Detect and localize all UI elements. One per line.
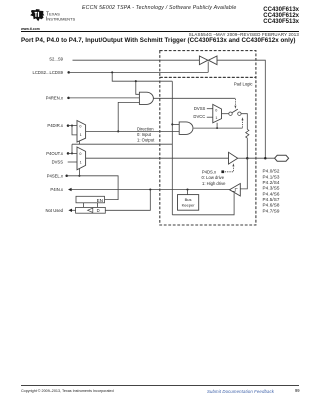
svg-text:1: 1 xyxy=(215,116,217,120)
latch clock triangle xyxy=(88,208,93,212)
wire pad feedback to input buffer xyxy=(240,158,247,189)
mux P4DIR xyxy=(77,121,86,143)
and gate U1 xyxy=(139,92,153,104)
wire LCD-enable vertical xyxy=(171,81,173,215)
svg-text:LCDS2...LCDS9: LCDS2...LCDS9 xyxy=(33,70,64,75)
node P4OUT.x bullet xyxy=(67,152,70,155)
svg-text:Keeper: Keeper xyxy=(182,203,196,208)
label P4OUT.x xyxy=(46,151,64,156)
wire resistor to pad row xyxy=(246,138,248,158)
label Bus Keeper xyxy=(182,197,196,208)
svg-text:1: 1 xyxy=(80,133,82,137)
svg-text:P4DS.x: P4DS.x xyxy=(202,170,217,175)
dashed control to pull-resistor switch xyxy=(234,99,236,109)
label 0: Low drive xyxy=(202,175,225,180)
wire DVSS stub xyxy=(207,108,213,110)
svg-text:DVCC: DVCC xyxy=(193,114,205,119)
pin labels P4.0/S2 - P4.7/S9 xyxy=(263,169,280,214)
schmitt input buffer xyxy=(230,184,241,197)
node P4DIR.x bullet xyxy=(67,124,70,127)
wire P4SEL.x to latch EN xyxy=(67,176,118,200)
svg-text:P4IN.x: P4IN.x xyxy=(50,187,63,192)
label Direction xyxy=(137,127,154,132)
label P4DS.x xyxy=(202,170,217,175)
wire input buffer enable path xyxy=(172,193,234,215)
label 0: Input xyxy=(137,132,152,137)
junction P4OUT branch xyxy=(71,152,73,154)
svg-text:1: 1 xyxy=(80,161,82,165)
junction P4SEL xyxy=(78,175,80,177)
wire driver output xyxy=(238,157,248,159)
wire DIR mux select stub xyxy=(79,141,81,144)
label EN xyxy=(97,198,103,203)
label DVSS xyxy=(52,160,64,165)
wire mux pull select xyxy=(216,123,218,128)
wire P4OUT branch up xyxy=(71,144,73,153)
latch inter-box connectors xyxy=(83,203,97,208)
svg-text:P4SEL.x: P4SEL.x xyxy=(47,173,64,178)
wire gate U2 top input xyxy=(172,123,179,125)
label P4REN.x xyxy=(46,95,64,100)
svg-text:P4.4/S6: P4.4/S6 xyxy=(263,191,280,196)
wire branch into AND gate U1 top input xyxy=(136,81,140,94)
svg-text:P4.3/S5: P4.3/S5 xyxy=(263,186,280,191)
svg-text:P4.6/S8: P4.6/S8 xyxy=(263,203,280,208)
svg-text:0: 0 xyxy=(215,109,217,113)
svg-text:Bus: Bus xyxy=(185,197,192,202)
transmission gate left diode xyxy=(199,56,208,65)
svg-text:1: Output: 1: Output xyxy=(137,138,155,143)
mux P4OUT xyxy=(77,147,86,170)
ESD clamp dashed box xyxy=(160,51,256,78)
mux P4DIR pin labels xyxy=(79,124,81,137)
wire gate U2 output xyxy=(194,127,243,129)
bus keeper box xyxy=(178,195,199,211)
svg-text:Not Used: Not Used xyxy=(46,208,64,213)
switch contact right xyxy=(238,112,241,115)
svg-text:Pad Logic: Pad Logic xyxy=(234,81,253,86)
svg-text:Direction: Direction xyxy=(137,127,154,132)
wire P4REN.x xyxy=(69,97,140,99)
junction LCDS branch xyxy=(111,71,113,73)
svg-text:P4.2/S4: P4.2/S4 xyxy=(263,180,280,185)
output driver buffer xyxy=(229,152,238,164)
wire output row to driver xyxy=(86,157,229,159)
svg-text:DVSS: DVSS xyxy=(52,160,64,165)
arrow Not Used xyxy=(68,209,72,212)
label LCDS2...LCDS9 xyxy=(33,70,64,75)
latch D box xyxy=(76,207,106,213)
switch lever xyxy=(232,109,238,113)
wire P4DIR branch to mux input 1 xyxy=(72,126,77,135)
svg-text:0: 0 xyxy=(79,152,81,156)
svg-text:P4DIR.x: P4DIR.x xyxy=(47,123,63,128)
wire P4OUT.x to mux input 0 xyxy=(68,152,77,154)
junction pad column xyxy=(264,157,267,160)
label 1: Output xyxy=(137,138,155,143)
label Pad Logic xyxy=(234,81,253,86)
wire DVCC stub xyxy=(207,116,213,118)
wire LCDS branch xyxy=(112,72,172,81)
junction gate U2 output / mux select xyxy=(216,127,218,129)
arrow P4IN.x xyxy=(68,188,72,191)
resistor R pull xyxy=(246,129,249,138)
svg-text:0: Low drive: 0: Low drive xyxy=(202,175,225,180)
label P4IN.x xyxy=(50,187,63,192)
node P4REN.x bullet xyxy=(67,97,70,100)
svg-text:P4OUT.x: P4OUT.x xyxy=(46,151,64,156)
and gate U2 xyxy=(179,122,193,134)
svg-text:0: 0 xyxy=(79,124,81,128)
svg-text:DVSS: DVSS xyxy=(194,106,206,111)
wire latch D path xyxy=(105,190,150,211)
Pad Logic dashed box xyxy=(160,77,256,225)
label Not Used xyxy=(46,208,64,213)
TI logo xyxy=(29,9,81,22)
junction LCD enable / gate U2 xyxy=(171,123,173,125)
mux pull pin labels xyxy=(215,109,217,121)
junction P4IN bus keeper xyxy=(186,188,188,190)
label S2...S9 xyxy=(49,57,63,62)
svg-text:S2...S9: S2...S9 xyxy=(49,57,63,62)
wire pad net top xyxy=(217,60,265,158)
pad xyxy=(275,155,289,161)
P4DS dashed control xyxy=(225,163,235,172)
node LCDS bullet xyxy=(67,71,70,74)
node pad net xyxy=(246,157,249,160)
wire Not Used xyxy=(72,209,76,211)
junction direction net / gate U1 xyxy=(117,130,119,132)
wire switch to resistor xyxy=(241,114,247,130)
wire LCDS to transmission gate center xyxy=(69,62,209,73)
wire P4DIR.x to mux input 0 xyxy=(68,125,77,127)
wire S2...S9 to transmission gate xyxy=(73,59,200,61)
label D xyxy=(97,208,100,213)
label DVCC xyxy=(193,114,205,119)
svg-text:EN: EN xyxy=(97,198,103,203)
junction LCDS/gate1 branch xyxy=(135,80,137,82)
svg-text:P4.7/S9: P4.7/S9 xyxy=(263,208,280,213)
wire pad row xyxy=(247,157,274,159)
transmission gate right diode xyxy=(208,56,217,65)
mux P4OUT pin labels xyxy=(79,152,81,165)
wire mux pull output xyxy=(222,113,229,115)
svg-text:1: High drive: 1: High drive xyxy=(202,181,226,186)
switch contact left xyxy=(229,112,232,115)
dashed control to switch contact xyxy=(242,117,244,127)
node P4SEL.x bullet xyxy=(65,175,68,178)
label DVSS pad logic xyxy=(194,106,206,111)
svg-text:P4.1/S3: P4.1/S3 xyxy=(263,174,280,179)
wire DVSS to mux input 1 xyxy=(68,161,77,163)
junction P4DIR branch xyxy=(71,125,73,127)
label P4DIR.x xyxy=(47,123,63,128)
svg-text:0: Input: 0: Input xyxy=(137,132,152,137)
wire bus keeper to P4IN net xyxy=(187,190,189,195)
wire gate U1 lower input from direction net xyxy=(118,102,139,131)
svg-text:P4.0/S2: P4.0/S2 xyxy=(263,169,280,174)
label P4SEL.x xyxy=(47,173,64,178)
label 1: High drive xyxy=(202,181,226,186)
svg-text:D: D xyxy=(97,208,100,213)
P4DS node square xyxy=(221,170,224,173)
latch EN box xyxy=(76,196,105,203)
svg-text:P4.5/S7: P4.5/S7 xyxy=(263,197,280,202)
svg-text:P4REN.x: P4REN.x xyxy=(46,95,64,100)
junction P4IN latch xyxy=(149,188,151,190)
wire gate U1 output xyxy=(153,97,235,99)
wire P4IN net xyxy=(71,189,229,191)
wire direction net xyxy=(86,130,180,132)
wire OUT mux select stub xyxy=(78,169,80,176)
mux pull direction DVSS/DVCC xyxy=(213,104,222,122)
wire mux select bridge xyxy=(72,143,172,145)
